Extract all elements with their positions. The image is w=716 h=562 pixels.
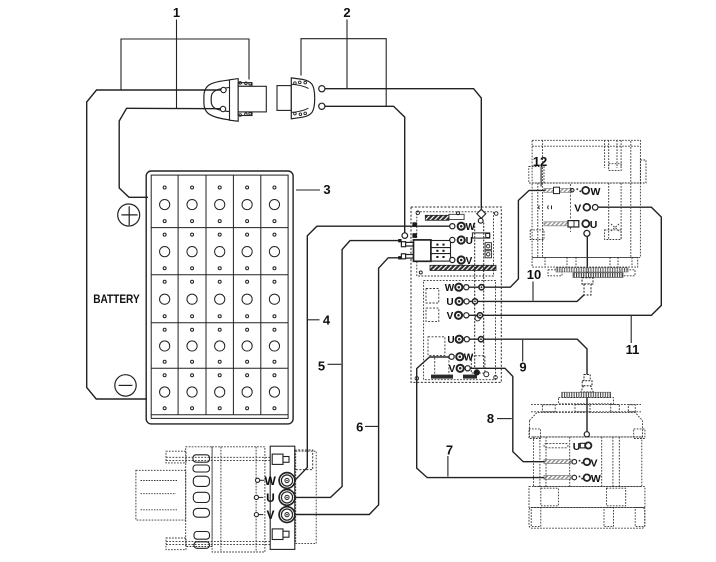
pump motor U terminal — [254, 490, 295, 506]
pump motor W terminal — [256, 473, 295, 489]
contactor K1 mount squares — [412, 222, 417, 238]
callout 8 — [497, 418, 512, 420]
traction motor top fixtures — [531, 404, 641, 411]
connector 1 contact holes — [220, 87, 226, 111]
svg-text:6: 6 — [356, 420, 363, 435]
connector 2 bolts — [294, 81, 307, 115]
svg-text:U: U — [466, 236, 473, 247]
contactor input circle — [402, 233, 408, 239]
steering motor bottom stud circle — [584, 230, 590, 236]
callout 2 — [301, 20, 386, 107]
callout 6 — [365, 425, 379, 427]
svg-text:V: V — [590, 457, 597, 469]
contactor K1 studs — [401, 242, 413, 259]
wire 4 controller W-top to pump motor W — [295, 226, 450, 480]
traction motor mid body — [534, 437, 642, 487]
callout 10 — [532, 282, 534, 301]
pump motor plate studs — [272, 454, 289, 539]
traction motor top stud circle — [584, 432, 589, 437]
connector 1 handle — [204, 80, 232, 120]
svg-text:10: 10 — [527, 267, 541, 282]
svg-text:U: U — [573, 441, 581, 453]
svg-text:V: V — [447, 311, 454, 322]
svg-text:V: V — [466, 256, 473, 267]
steering motor gear band — [556, 268, 628, 272]
pump motor fin column — [166, 447, 212, 550]
controller bus bar — [472, 223, 489, 370]
svg-text:W: W — [464, 353, 474, 364]
traction motor V terminal — [544, 457, 598, 469]
controller bus end bolt — [474, 369, 480, 375]
callout 4 — [308, 319, 320, 321]
terminal W lower — [449, 353, 474, 364]
wire 9 controller lower-U to traction motor U — [470, 339, 588, 431]
svg-text:W: W — [265, 474, 277, 488]
callout 5 — [328, 363, 342, 365]
controller mid hatched band — [430, 265, 496, 270]
callout 7 — [447, 456, 449, 477]
pump motor junction box — [295, 450, 313, 470]
controller component footprints — [426, 289, 449, 378]
connector 2 flange bands — [291, 84, 308, 112]
pump motor fins — [193, 455, 210, 549]
svg-text:BATTERY: BATTERY — [93, 292, 140, 306]
controller top bolt diamond — [477, 209, 486, 218]
connector 1 flange — [230, 79, 239, 122]
connector 1 body — [238, 83, 266, 116]
controller bus fittings — [471, 243, 491, 373]
svg-text:5: 5 — [318, 359, 325, 374]
traction motor gear band — [562, 392, 611, 397]
battery plus terminal — [118, 204, 140, 226]
callout 12 — [540, 167, 542, 187]
svg-text:W: W — [445, 283, 455, 294]
wire 6 contactor stud to pump motor V — [295, 258, 401, 515]
terminal V lower — [449, 364, 471, 375]
pump motor terminal plate — [270, 446, 295, 549]
connector 1 bolts — [239, 82, 252, 117]
svg-text:U: U — [447, 335, 454, 346]
svg-text:V: V — [449, 364, 456, 375]
traction motor U terminal — [544, 441, 591, 453]
steering motor V terminal — [539, 203, 598, 215]
svg-text:V: V — [574, 203, 581, 215]
callout 1 — [121, 20, 249, 109]
terminal W mid — [445, 283, 469, 294]
steering motor terminal panel edge — [570, 184, 572, 232]
battery cell circles — [160, 186, 280, 410]
steering motor right tab — [640, 160, 646, 183]
wire controller mid-W to steering motor W — [469, 190, 546, 287]
svg-text:2: 2 — [343, 5, 350, 20]
traction motor bottom skirt — [529, 507, 645, 528]
svg-text:V: V — [266, 508, 274, 522]
connector 2 shell — [291, 78, 314, 119]
steering motor W stud — [544, 186, 601, 198]
wire 8 controller lower-V to traction motor V — [470, 368, 544, 461]
controller top bolt circle — [478, 218, 483, 223]
wire 7 controller lower-W to traction motor W — [417, 357, 545, 478]
traction motor W terminal — [544, 473, 601, 485]
connector 2 terminals — [319, 86, 325, 110]
svg-text:1: 1 — [173, 5, 180, 20]
steering motor M10 body — [530, 183, 640, 257]
terminal U top — [450, 236, 473, 247]
contactor K1 contact block — [431, 241, 451, 262]
steering motor base — [532, 257, 638, 275]
wire controller mid-U to steering motor bottom stud — [469, 236, 587, 301]
terminal V mid — [447, 311, 469, 322]
wire connector2 bottom terminal to contactor circle — [325, 106, 405, 232]
svg-text:9: 9 — [519, 360, 526, 375]
svg-text:W: W — [465, 222, 475, 233]
battery grid — [151, 175, 288, 415]
connector 2 body — [277, 86, 291, 111]
pump motor body — [166, 447, 270, 552]
controller corner screws — [415, 211, 498, 380]
terminal V top — [450, 256, 473, 267]
svg-text:U: U — [266, 491, 275, 505]
svg-text:7: 7 — [446, 443, 453, 458]
callout 3 — [296, 189, 320, 191]
pump motor V terminal — [254, 507, 295, 523]
wire controller mid-V to steering motor V — [469, 207, 661, 315]
wire battery-plus to connector1 inner — [119, 108, 220, 197]
controller top hatched block — [425, 214, 464, 220]
svg-text:3: 3 — [323, 182, 330, 197]
svg-text:U: U — [446, 297, 453, 308]
traction motor lower body — [529, 487, 645, 508]
steering motor lower hatch — [573, 273, 623, 278]
terminal U mid — [446, 297, 469, 308]
contactor K1 body — [414, 240, 431, 261]
steering motor U stud — [544, 219, 597, 231]
controller bus end washer — [484, 372, 489, 377]
svg-text:W: W — [591, 186, 601, 198]
traction motor shaft — [581, 375, 593, 393]
svg-text:4: 4 — [323, 313, 331, 328]
wire connector2 top terminal to controller top bolt — [325, 89, 481, 209]
terminal U lower — [447, 335, 469, 346]
svg-text:W: W — [591, 473, 601, 485]
controller top section frame — [417, 212, 494, 276]
bus bar bolts — [472, 285, 484, 342]
controller lower section frame — [424, 280, 496, 379]
terminal W top — [450, 222, 476, 233]
svg-text:8: 8 — [487, 411, 494, 426]
controller U1 outer case — [411, 207, 501, 382]
contactor wire lugs — [398, 239, 401, 260]
callout 11 — [630, 316, 632, 343]
svg-text:U: U — [590, 219, 598, 231]
steering motor shaft — [582, 278, 593, 295]
wire battery-minus to connector1 outer — [87, 90, 221, 399]
traction motor upper body — [529, 412, 645, 438]
pump motor gearbox — [136, 470, 186, 520]
battery minus terminal — [115, 375, 136, 396]
wire 5 contactor stud to pump motor U — [295, 241, 401, 498]
svg-text:11: 11 — [626, 342, 640, 357]
pump motor right cover — [296, 451, 317, 543]
steering motor M12 top housing — [529, 140, 641, 183]
contactor K1 contact marks — [436, 244, 444, 258]
battery outer case — [146, 171, 293, 424]
callout 9 — [522, 340, 524, 362]
controller bottom hatch — [431, 375, 477, 379]
